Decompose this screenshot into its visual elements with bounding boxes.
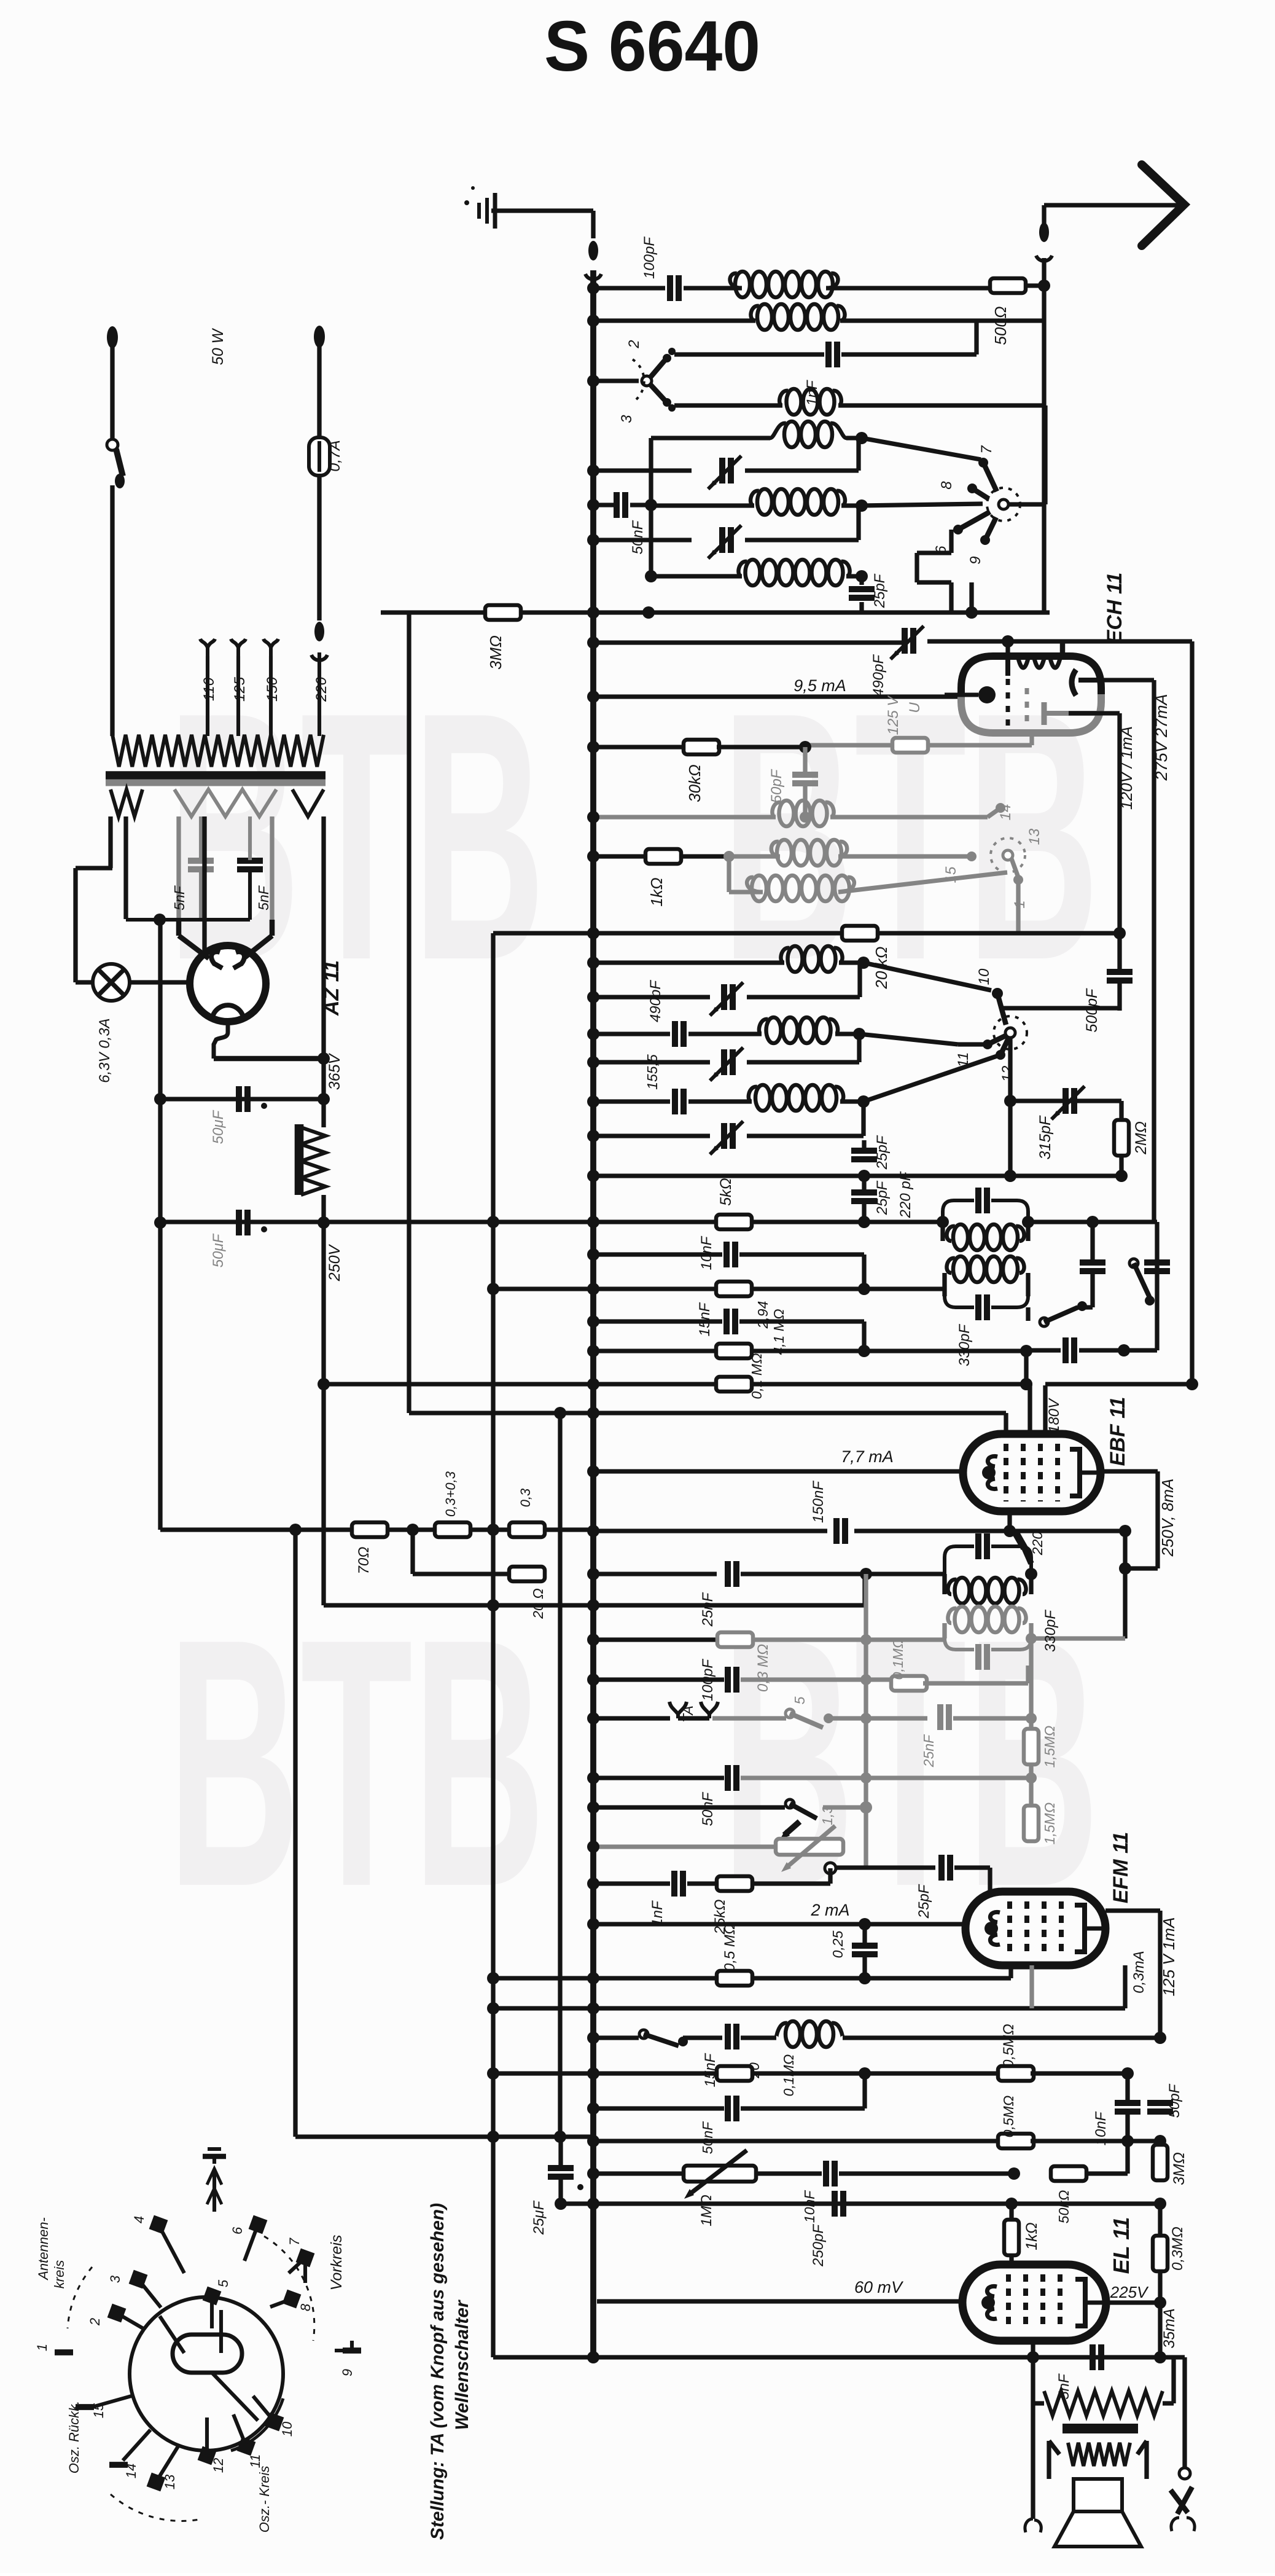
label 100pF	[641, 237, 658, 279]
label EFM 11	[1109, 1832, 1133, 1904]
label 70ohm	[356, 1547, 372, 1575]
label 20kohm	[872, 947, 891, 990]
wire rowB1 gray	[587, 811, 811, 823]
row 3066	[587, 1877, 670, 1890]
capacitor 500pF	[1107, 933, 1133, 1011]
label 12	[999, 1066, 1016, 1082]
capacitor 150nF	[836, 1518, 845, 1544]
svg-text:250V: 250V	[326, 1243, 343, 1282]
trimmer C-C4	[710, 1047, 743, 1081]
svg-text:35mA: 35mA	[1161, 2308, 1178, 2348]
connector 220 tap	[311, 622, 327, 660]
label U gray	[907, 702, 923, 713]
capacitor 1nF row577	[829, 342, 837, 367]
wire rowB1b gray	[830, 803, 1005, 817]
wire rowB3 gray	[729, 872, 1007, 892]
wire rowA2b	[745, 438, 859, 471]
label 0,5M 3220	[722, 1924, 738, 1971]
socket arc left	[68, 2267, 92, 2328]
label 5nF	[1056, 2373, 1072, 2400]
svg-text:50μF: 50μF	[210, 1110, 227, 1144]
wire 220 tap	[318, 652, 321, 736]
wire 2797b gray	[829, 1716, 927, 1720]
row 3317	[587, 2032, 639, 2044]
socket pin 9	[335, 2341, 361, 2376]
label 5	[792, 1696, 808, 1704]
svg-text:490pF: 490pF	[647, 980, 664, 1022]
socket pin 10	[253, 2396, 295, 2437]
label 60mV	[854, 2278, 904, 2296]
output transformer core	[1062, 2424, 1138, 2433]
wire 3317b	[843, 2032, 1166, 2044]
switch S1 dotted arc	[633, 359, 644, 402]
svg-text:0,5MΩ: 0,5MΩ	[1000, 2096, 1016, 2138]
wire ground to bus	[491, 211, 593, 238]
svg-text:13: 13	[1026, 828, 1043, 845]
row 3006 gray	[587, 1841, 776, 1853]
vertical 263	[158, 920, 162, 1530]
label 50nF	[630, 520, 646, 554]
label 11	[955, 1052, 972, 1068]
antenna arrow	[1142, 165, 1184, 246]
label 15	[943, 866, 959, 883]
switch SW2 contact 6	[953, 512, 990, 534]
svg-text:12: 12	[999, 1066, 1016, 1082]
wire rowC6	[587, 1130, 710, 1142]
wire 2490 to bus	[289, 1524, 499, 1536]
svg-text:2: 2	[87, 2318, 103, 2326]
label 35mA	[1161, 2308, 1178, 2348]
ground symbol	[464, 186, 495, 229]
label 250V	[326, 1243, 343, 1282]
socket wires inside	[160, 2310, 258, 2421]
wire row997 right	[587, 582, 1050, 619]
trimmer C-C6	[710, 1121, 743, 1154]
label 50W	[209, 327, 227, 365]
wire rowA3b	[841, 499, 983, 512]
label 1,5M a	[1042, 1726, 1058, 1768]
label 10nF right	[1093, 2111, 1109, 2145]
vertical B gray	[727, 856, 731, 892]
row 1789	[154, 1093, 330, 1105]
wire osc grid drop	[1005, 641, 1010, 656]
fuse 0,7A	[309, 437, 330, 476]
label 3Mohm	[486, 635, 505, 670]
switch S1 contact 2	[650, 348, 676, 377]
label 330pF	[956, 1324, 973, 1366]
label 25nF gray	[921, 1734, 937, 1768]
junction A5	[856, 570, 868, 582]
label 100pF 2734	[700, 1659, 716, 1701]
label 500ohm	[991, 306, 1010, 345]
socket arc right	[264, 2236, 314, 2341]
switch S13	[780, 1799, 817, 1839]
switch SW2 dotted circle	[987, 488, 1020, 521]
socket tube sideview	[173, 2335, 242, 2373]
wire 2942b gray	[823, 1801, 872, 1814]
label 365V	[326, 1052, 343, 1090]
label 13	[1026, 828, 1043, 845]
socket pin 11	[233, 2414, 263, 2468]
wire 500pF corner	[1000, 1006, 1120, 1010]
svg-text:14: 14	[123, 2464, 139, 2478]
wire rowA1	[651, 436, 770, 440]
trimmer C-A4	[708, 525, 741, 558]
junction antenna/500ohm	[1038, 280, 1050, 292]
svg-text:70Ω: 70Ω	[356, 1547, 372, 1575]
row 2613	[324, 1574, 865, 1611]
svg-text:180V: 180V	[1046, 1398, 1062, 1433]
capacitor 10nF right	[1115, 2073, 1140, 2141]
label 1nF 3066	[649, 1900, 666, 1927]
label 0,3mA	[1131, 1951, 1147, 1993]
row 2042	[587, 1248, 722, 1261]
svg-text:250pF: 250pF	[810, 2224, 827, 2267]
coil LC2	[759, 1017, 838, 1043]
wire row1140 9.5mA	[587, 691, 961, 703]
socket pin 1	[34, 2344, 73, 2352]
branch 20ohm	[413, 1530, 511, 1574]
label Antennenkreis	[36, 2217, 67, 2288]
svg-text:150nF: 150nF	[810, 1481, 827, 1523]
switch SW4 contact 11	[859, 1034, 1005, 1049]
svg-text:155,5: 155,5	[644, 1054, 660, 1090]
svg-text:1,5MΩ: 1,5MΩ	[1042, 1803, 1058, 1845]
label 2Mohm	[1133, 1121, 1150, 1155]
label 15nF	[702, 2053, 719, 2087]
svg-text:50 W: 50 W	[209, 327, 227, 365]
socket pin 3	[107, 2270, 161, 2308]
switch SW2 contact 8	[967, 483, 989, 499]
label Stellung	[427, 2203, 448, 2540]
svg-text:7: 7	[978, 445, 995, 454]
vertical 666	[407, 614, 411, 1413]
wire rowC1	[587, 957, 784, 969]
row 3538	[587, 2167, 684, 2180]
label 25k	[712, 1900, 728, 1935]
label 1nF	[804, 380, 821, 406]
wire SW2 c6 step	[917, 530, 951, 582]
label 1M pot	[698, 2194, 715, 2226]
connector on bus top	[585, 241, 601, 280]
resistor 1kohm	[645, 849, 681, 864]
label 490pF	[870, 654, 887, 697]
capacitor 0,25uF	[852, 1918, 878, 1978]
resistor r2098	[716, 1282, 752, 1296]
label 3	[618, 415, 635, 423]
row 7.7mA	[587, 1465, 964, 1478]
wire rowA4	[587, 534, 692, 546]
capacitor 250pF	[835, 2191, 843, 2217]
watermark BTB lower left	[168, 1565, 545, 1960]
resistor 0,3M EL	[1153, 2204, 1168, 2303]
heater pins EL	[1025, 2403, 1041, 2532]
row 250V left	[154, 1216, 330, 1229]
svg-text:Osz. Rückk.: Osz. Rückk.	[66, 2401, 82, 2474]
svg-text:0,25: 0,25	[830, 1930, 846, 1958]
label 6	[933, 546, 949, 554]
tap hook 125	[231, 639, 246, 736]
wire 2894b gray	[741, 1775, 1031, 1780]
wire to S1	[587, 375, 639, 387]
svg-text:6,3V 0,3A: 6,3V 0,3A	[96, 1018, 113, 1082]
resistor 3375a	[717, 2066, 752, 2081]
transformer sec right	[292, 789, 324, 1059]
tube AZ11	[190, 945, 266, 1022]
label 125V 1mA	[1160, 1917, 1178, 1997]
svg-text:5: 5	[792, 1696, 808, 1704]
svg-text:125 V: 125 V	[885, 695, 902, 735]
wire ECH top lead 2	[1060, 641, 1066, 656]
row 2198	[1026, 1337, 1157, 1363]
row 30k	[587, 741, 686, 753]
wire lamp right	[202, 816, 206, 982]
capacitor 50uF b	[239, 1210, 267, 1235]
wire 2562b	[741, 1568, 945, 1580]
svg-text:150: 150	[264, 676, 281, 702]
main HT bus	[590, 270, 596, 2357]
label Osz Rueck	[66, 2401, 82, 2474]
svg-text:3MΩ: 3MΩ	[1171, 2152, 1188, 2185]
resistor 0,5M 3485	[998, 2134, 1034, 2148]
svg-text:125: 125	[232, 676, 248, 702]
resistor 0,5M 3375	[998, 2066, 1034, 2081]
wire 3538b	[756, 2171, 822, 2175]
wire EFM right	[1105, 1911, 1160, 2038]
coil LC1	[781, 946, 842, 972]
wire 2042b	[739, 1255, 864, 1289]
label 50pF right	[1166, 2083, 1183, 2118]
wire HV down	[321, 1059, 326, 1099]
wire AZ plate R	[245, 920, 272, 957]
resistor 0,3a	[435, 1522, 470, 1537]
watermark BTB upper left	[168, 638, 545, 1033]
label 8	[938, 481, 955, 490]
tap hook 110	[200, 639, 215, 736]
wire 3538c	[839, 2167, 1020, 2180]
wire row469b	[684, 286, 742, 290]
switch SW2 wiper	[999, 499, 1008, 509]
capacitor 5nF out	[1093, 2344, 1101, 2370]
svg-text:8: 8	[298, 2303, 313, 2311]
coil IF1a	[943, 1222, 1028, 1250]
socket pin 14	[109, 2430, 150, 2478]
svg-text:0,3+0,3: 0,3+0,3	[443, 1471, 458, 1517]
row 2mA 3132	[587, 1918, 965, 1930]
mains lead L blob	[107, 326, 118, 348]
label Wellenschalter	[452, 2299, 472, 2430]
svg-text:2,94: 2,94	[755, 1301, 771, 1329]
row 2492	[587, 1525, 827, 1537]
vertical 275V line	[1190, 641, 1194, 1385]
label 20ohm	[530, 1588, 546, 1619]
svg-text:10nF: 10nF	[698, 1235, 715, 1270]
svg-text:8: 8	[938, 481, 955, 490]
IF2 top bracket	[945, 1546, 1031, 1574]
label 15nF 2151	[696, 1302, 713, 1336]
svg-text:5kΩ: 5kΩ	[717, 1178, 735, 1205]
svg-text:1kΩ: 1kΩ	[1023, 2222, 1040, 2250]
svg-text:15nF: 15nF	[696, 1302, 713, 1336]
svg-text:3MΩ: 3MΩ	[486, 635, 505, 670]
output transformer secondary	[1049, 2441, 1147, 2479]
svg-text:25pF: 25pF	[916, 1884, 932, 1919]
svg-text:TA: TA	[680, 1705, 696, 1723]
tap hook 150	[263, 639, 278, 736]
jack TA	[669, 1702, 718, 1718]
wire rowA3	[645, 499, 754, 511]
label 225V	[1110, 2283, 1149, 2301]
wire EBF top leads	[1030, 1385, 1045, 1436]
svg-text:50pF: 50pF	[1166, 2083, 1183, 2118]
trimmer C-A2	[708, 456, 741, 489]
coil IF1b	[945, 1256, 1028, 1296]
resistor 20kohm	[842, 926, 878, 941]
wire IF2b right	[1026, 1633, 1125, 1644]
svg-text:100pF: 100pF	[641, 237, 658, 279]
row 25nF 2562	[587, 1568, 717, 1580]
capacitor 50pF gray	[792, 747, 818, 817]
resistor 20ohm	[509, 1567, 593, 1581]
svg-text:S 6640: S 6640	[544, 6, 760, 86]
label 0,5M 3375	[1000, 2024, 1017, 2068]
resistor 25k	[687, 1868, 830, 1891]
label Vorkreis	[328, 2235, 345, 2291]
svg-text:kreis: kreis	[52, 2260, 67, 2288]
label ECH 11	[1103, 573, 1126, 644]
label 5nF b	[255, 885, 271, 910]
connector antenna lead	[1036, 222, 1052, 261]
label 6,3V 0,3A	[96, 1018, 113, 1082]
row 2734	[587, 1674, 724, 1686]
row 1k	[587, 850, 647, 863]
label 20 3317	[746, 2054, 797, 2097]
wire mains R2	[317, 476, 321, 621]
label TA	[680, 1705, 696, 1723]
capacitor 25nF gray	[940, 1704, 949, 1730]
vertical 263 low	[160, 1223, 161, 1530]
svg-text:9: 9	[967, 556, 984, 564]
svg-text:EBF 11: EBF 11	[1106, 1397, 1129, 1466]
svg-text:25pF: 25pF	[874, 1180, 891, 1215]
label 330pF IF2	[1042, 1610, 1059, 1652]
resistor 0,3b	[509, 1522, 545, 1537]
wire antenna vertical	[1042, 258, 1046, 613]
svg-text:1kΩ: 1kΩ	[647, 877, 666, 906]
capacitor 10nF 2042	[727, 1242, 735, 1267]
switch SW4 dotted circle	[994, 1016, 1027, 1049]
watermark BTB upper right	[722, 638, 1099, 1033]
wire 3485b	[1031, 2135, 1166, 2147]
coil L6	[738, 560, 849, 585]
junction IF1 left	[937, 1216, 949, 1228]
wire 3432b	[741, 2073, 865, 2108]
svg-text:10nF: 10nF	[801, 2190, 817, 2223]
potentiometer vol gray	[776, 1826, 843, 1872]
capacitor 5nF psu b	[237, 816, 263, 920]
svg-text:0,7A: 0,7A	[326, 440, 343, 471]
row 250V 1989	[162, 1216, 943, 1228]
wire 2797c gray	[953, 1713, 1037, 1724]
svg-text:25pF: 25pF	[871, 573, 888, 608]
capacitor IF2 top	[978, 1533, 987, 1559]
label 250pF	[810, 2224, 827, 2267]
svg-text:13: 13	[162, 2474, 177, 2489]
label 150nF	[810, 1481, 827, 1523]
svg-text:0,3 MΩ: 0,3 MΩ	[755, 1644, 771, 1692]
svg-text:14: 14	[997, 804, 1014, 821]
label 0,5M 3485	[1000, 2096, 1016, 2138]
svg-text:490pF: 490pF	[870, 654, 887, 697]
label 1k EL	[1023, 2222, 1040, 2250]
svg-text:50μF: 50μF	[210, 1233, 227, 1267]
wire 1679 gray b	[1026, 1764, 1037, 1806]
wire rowC4	[587, 1056, 710, 1068]
wire row522b	[840, 318, 1044, 323]
label 125V gray	[885, 695, 902, 735]
speaker cone	[1055, 2511, 1141, 2547]
svg-text:20 Ω: 20 Ω	[530, 1588, 546, 1619]
svg-text:6: 6	[230, 2226, 245, 2234]
socket pin 8	[270, 2290, 313, 2312]
resistor 0,1M gray	[891, 1676, 927, 1691]
vertical 1410 gray	[860, 1574, 871, 1868]
svg-text:1: 1	[34, 2344, 50, 2351]
svg-text:7: 7	[287, 2237, 302, 2245]
label 25pF A5	[871, 573, 888, 608]
label 10	[976, 968, 992, 985]
switch SW2 contact 7	[978, 458, 997, 491]
capacitor c1884	[1144, 1263, 1170, 1271]
potentiometer 1M	[684, 2150, 756, 2199]
svg-text:4,1 MΩ: 4,1 MΩ	[771, 1309, 787, 1355]
socket pin 15	[76, 2396, 131, 2418]
svg-text:2MΩ: 2MΩ	[1133, 1121, 1150, 1155]
wire SW3 wiper down gray	[1016, 880, 1020, 933]
svg-text:100pF: 100pF	[700, 1659, 716, 1701]
capacitor 50pF right	[1147, 2103, 1173, 2112]
wire row1046	[587, 635, 1192, 649]
switch S1 wiper	[642, 376, 652, 386]
svg-text:365V: 365V	[326, 1052, 343, 1090]
svg-text:220: 220	[313, 676, 330, 702]
resistor 70ohm	[352, 1522, 388, 1537]
label 3M	[1171, 2152, 1188, 2185]
wire AZ cathode	[214, 1020, 330, 1065]
capacitor 50nF bus822	[587, 492, 651, 518]
speaker box	[1074, 2479, 1122, 2511]
resistor r2253	[716, 1377, 752, 1392]
wire rowA4b	[745, 506, 859, 540]
wire mains L2	[110, 485, 114, 736]
wire SW2 wiper out	[1008, 405, 1045, 504]
switch SW3 dotted circle	[991, 838, 1025, 872]
svg-text:12: 12	[211, 2458, 226, 2473]
wire 30k to junction	[717, 741, 811, 753]
socket pin 2	[87, 2304, 143, 2328]
svg-text:0,1MΩ: 0,1MΩ	[890, 1638, 906, 1680]
label 500pF	[1083, 988, 1101, 1033]
label 50pF gray	[768, 769, 785, 803]
switch SW4 contact 10	[864, 963, 1006, 1025]
socket TA arrow	[203, 2149, 226, 2212]
svg-text:60 mV: 60 mV	[854, 2278, 904, 2296]
wire 2740c gray	[923, 1666, 1028, 1683]
row 3432	[587, 2102, 724, 2115]
title S 6640	[544, 6, 760, 86]
wire mains R	[317, 346, 321, 437]
svg-text:315pF: 315pF	[1037, 1115, 1054, 1160]
